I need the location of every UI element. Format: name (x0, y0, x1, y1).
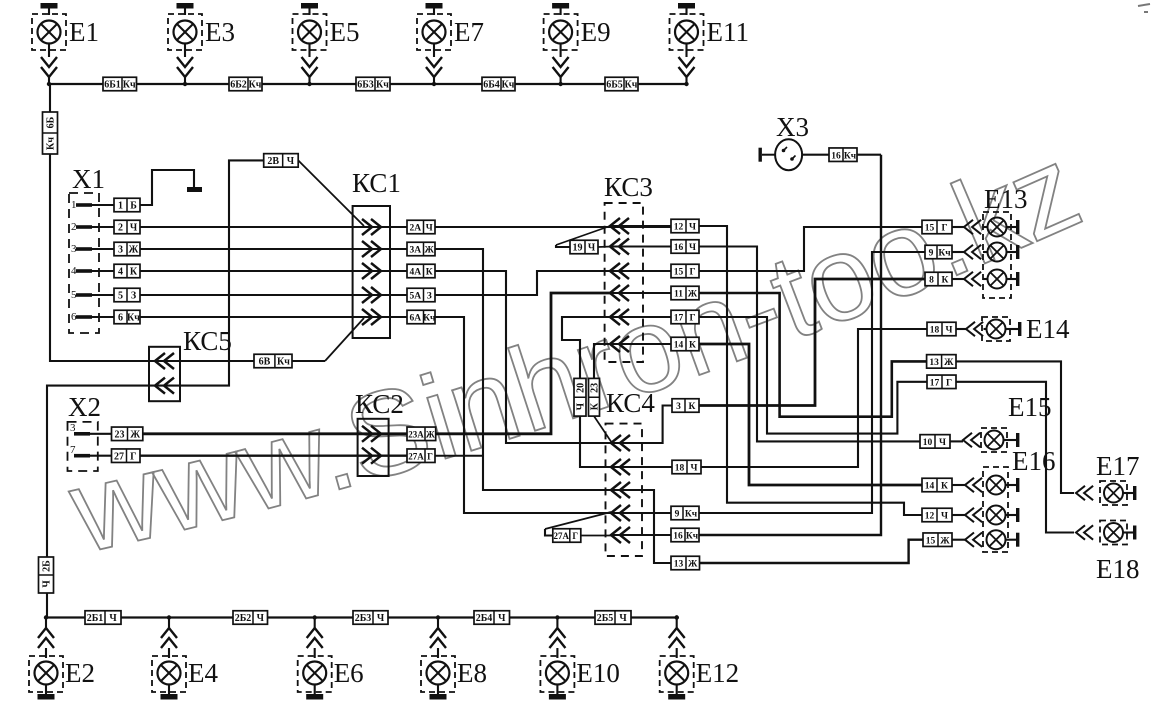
svg-text:3: 3 (71, 243, 77, 255)
svg-text:12: 12 (925, 512, 935, 522)
svg-text:3: 3 (676, 402, 681, 412)
svg-text:Кч: Кч (844, 151, 857, 161)
svg-text:Ч: Ч (130, 223, 138, 234)
svg-text:Кч: Кч (686, 532, 699, 542)
svg-text:E12: E12 (696, 658, 740, 688)
svg-text:E7: E7 (454, 17, 484, 47)
svg-text:E17: E17 (1096, 451, 1140, 481)
svg-text:6Б4: 6Б4 (483, 80, 500, 91)
svg-text:Кч: Кч (46, 137, 57, 150)
svg-text:Ч: Ч (946, 326, 953, 336)
svg-text:Ж: Ж (688, 290, 698, 300)
svg-text:Кч: Кч (127, 313, 140, 324)
svg-text:15: 15 (674, 268, 684, 278)
svg-text:К: К (590, 402, 601, 410)
svg-text:Кч: Кч (423, 314, 436, 324)
svg-text:6Б1: 6Б1 (104, 80, 121, 91)
svg-text:27А: 27А (408, 451, 424, 461)
svg-text:5: 5 (71, 289, 77, 301)
svg-text:Ч: Ч (619, 613, 627, 624)
svg-text:К: К (942, 276, 949, 286)
svg-text:Кч: Кч (376, 80, 389, 91)
svg-text:17: 17 (930, 378, 940, 388)
svg-text:E18: E18 (1096, 554, 1140, 584)
svg-text:3А: 3А (409, 246, 421, 256)
svg-text:E5: E5 (330, 17, 360, 47)
svg-text:Кч: Кч (249, 80, 262, 91)
svg-text:2Б4: 2Б4 (476, 613, 493, 624)
svg-text:E3: E3 (205, 17, 235, 47)
svg-text:4: 4 (71, 265, 77, 277)
svg-text:9: 9 (675, 510, 680, 520)
svg-text:15: 15 (926, 536, 936, 546)
svg-text:5А: 5А (409, 292, 421, 302)
svg-text:E8: E8 (457, 658, 487, 688)
svg-text:Ч: Ч (287, 156, 295, 167)
svg-text:E9: E9 (581, 17, 611, 47)
svg-text:Кч: Кч (685, 510, 698, 520)
svg-text:8: 8 (929, 276, 934, 286)
svg-text:E13: E13 (984, 184, 1028, 214)
svg-text:2Б2: 2Б2 (235, 613, 252, 624)
svg-text:К: К (689, 402, 696, 412)
svg-text:E4: E4 (188, 658, 218, 688)
svg-text:16: 16 (674, 243, 684, 253)
svg-text:Ч: Ч (941, 512, 948, 522)
svg-text:Ж: Ж (130, 429, 140, 440)
svg-text:18: 18 (675, 464, 685, 474)
svg-text:7: 7 (70, 444, 76, 456)
svg-text:Ж: Ж (688, 560, 698, 570)
svg-text:К: К (426, 268, 433, 278)
svg-text:Ж: Ж (425, 246, 435, 256)
svg-text:5: 5 (118, 291, 123, 302)
svg-text:Ж: Ж (940, 536, 950, 546)
svg-text:13: 13 (674, 560, 684, 570)
svg-text:Кч: Кч (625, 80, 638, 91)
svg-text:2Б: 2Б (42, 560, 53, 572)
svg-text:Ч: Ч (689, 243, 696, 253)
svg-text:Г: Г (130, 451, 136, 462)
svg-text:Г: Г (427, 451, 433, 461)
svg-text:6: 6 (118, 313, 123, 324)
svg-text:12: 12 (674, 223, 684, 233)
svg-text:Кч: Кч (938, 249, 951, 259)
svg-text:Кч: Кч (277, 357, 290, 368)
svg-text:Ч: Ч (588, 243, 596, 254)
svg-text:4: 4 (118, 267, 123, 278)
svg-text:6: 6 (71, 311, 77, 323)
svg-text:Х3: Х3 (776, 112, 809, 142)
svg-text:Х1: Х1 (72, 164, 105, 194)
svg-text:17: 17 (674, 314, 684, 324)
svg-text:18: 18 (930, 326, 940, 336)
svg-text:6Б3: 6Б3 (357, 80, 374, 91)
svg-text:2Б5: 2Б5 (597, 613, 614, 624)
svg-text:27: 27 (114, 451, 124, 462)
svg-text:Ч: Ч (257, 613, 265, 624)
svg-text:Ч: Ч (498, 613, 506, 624)
svg-text:2Б3: 2Б3 (355, 613, 372, 624)
svg-text:К: К (941, 482, 948, 492)
svg-text:КС4: КС4 (606, 388, 655, 418)
svg-text:Ч: Ч (939, 438, 946, 448)
svg-text:З: З (427, 292, 432, 302)
svg-text:КС2: КС2 (355, 389, 404, 419)
svg-text:27А: 27А (554, 531, 570, 541)
svg-text:3: 3 (118, 245, 123, 256)
svg-text:19: 19 (573, 243, 583, 254)
svg-text:4А: 4А (409, 268, 421, 278)
svg-text:E11: E11 (707, 17, 750, 47)
svg-text:Х2: Х2 (68, 392, 101, 422)
svg-text:E2: E2 (65, 658, 95, 688)
svg-text:15: 15 (925, 224, 935, 234)
svg-text:2: 2 (71, 221, 77, 233)
svg-text:11: 11 (674, 290, 683, 300)
svg-text:2Б1: 2Б1 (87, 613, 104, 624)
svg-text:Кч: Кч (502, 80, 515, 91)
svg-text:КС3: КС3 (604, 172, 653, 202)
svg-text:Б: Б (130, 201, 137, 212)
svg-text:9: 9 (929, 249, 934, 259)
svg-text:E15: E15 (1008, 392, 1052, 422)
svg-text:E10: E10 (576, 658, 620, 688)
svg-text:2В: 2В (267, 156, 279, 167)
svg-text:14: 14 (925, 482, 935, 492)
svg-text:Г: Г (689, 268, 695, 278)
svg-text:13: 13 (929, 358, 939, 368)
svg-text:КС5: КС5 (183, 326, 232, 356)
svg-text:Ж: Ж (129, 245, 139, 256)
svg-text:20: 20 (576, 383, 587, 393)
svg-text:E6: E6 (334, 658, 364, 688)
svg-text:1: 1 (71, 199, 77, 211)
svg-text:Г: Г (689, 314, 695, 324)
svg-text:Ч: Ч (576, 402, 587, 410)
svg-text:Ч: Ч (426, 224, 433, 234)
svg-text:Г: Г (946, 378, 952, 388)
svg-text:10: 10 (923, 438, 933, 448)
svg-text:Ч: Ч (691, 464, 698, 474)
svg-text:6Б2: 6Б2 (230, 80, 247, 91)
svg-text:6Б5: 6Б5 (606, 80, 623, 91)
svg-text:3: 3 (70, 422, 76, 434)
svg-text:Г: Г (941, 224, 947, 234)
svg-text:16: 16 (831, 151, 841, 161)
svg-text:КС1: КС1 (352, 168, 401, 198)
svg-text:К: К (689, 341, 696, 351)
svg-text:Ж: Ж (944, 358, 954, 368)
svg-text:6Б: 6Б (46, 116, 57, 128)
svg-text:E14: E14 (1026, 314, 1070, 344)
svg-text:Ч: Ч (109, 613, 117, 624)
svg-text:6В: 6В (259, 357, 271, 368)
svg-text:23: 23 (590, 383, 601, 393)
svg-text:23А: 23А (408, 429, 424, 439)
svg-text:14: 14 (674, 341, 684, 351)
svg-text:К: К (130, 267, 138, 278)
svg-text:2: 2 (118, 223, 123, 234)
svg-text:1: 1 (118, 201, 123, 212)
svg-text:16: 16 (673, 532, 683, 542)
svg-text:Ч: Ч (689, 223, 696, 233)
svg-text:E1: E1 (69, 17, 99, 47)
svg-text:2А: 2А (409, 224, 421, 234)
svg-text:З: З (131, 291, 136, 302)
svg-text:23: 23 (115, 429, 125, 440)
svg-text:Г: Г (572, 531, 578, 541)
svg-text:6А: 6А (409, 314, 421, 324)
svg-text:Ч: Ч (42, 580, 53, 588)
svg-text:Ч: Ч (377, 613, 385, 624)
svg-text:Кч: Кч (123, 80, 136, 91)
svg-text:E16: E16 (1012, 446, 1056, 476)
svg-text:Ж: Ж (426, 429, 435, 439)
